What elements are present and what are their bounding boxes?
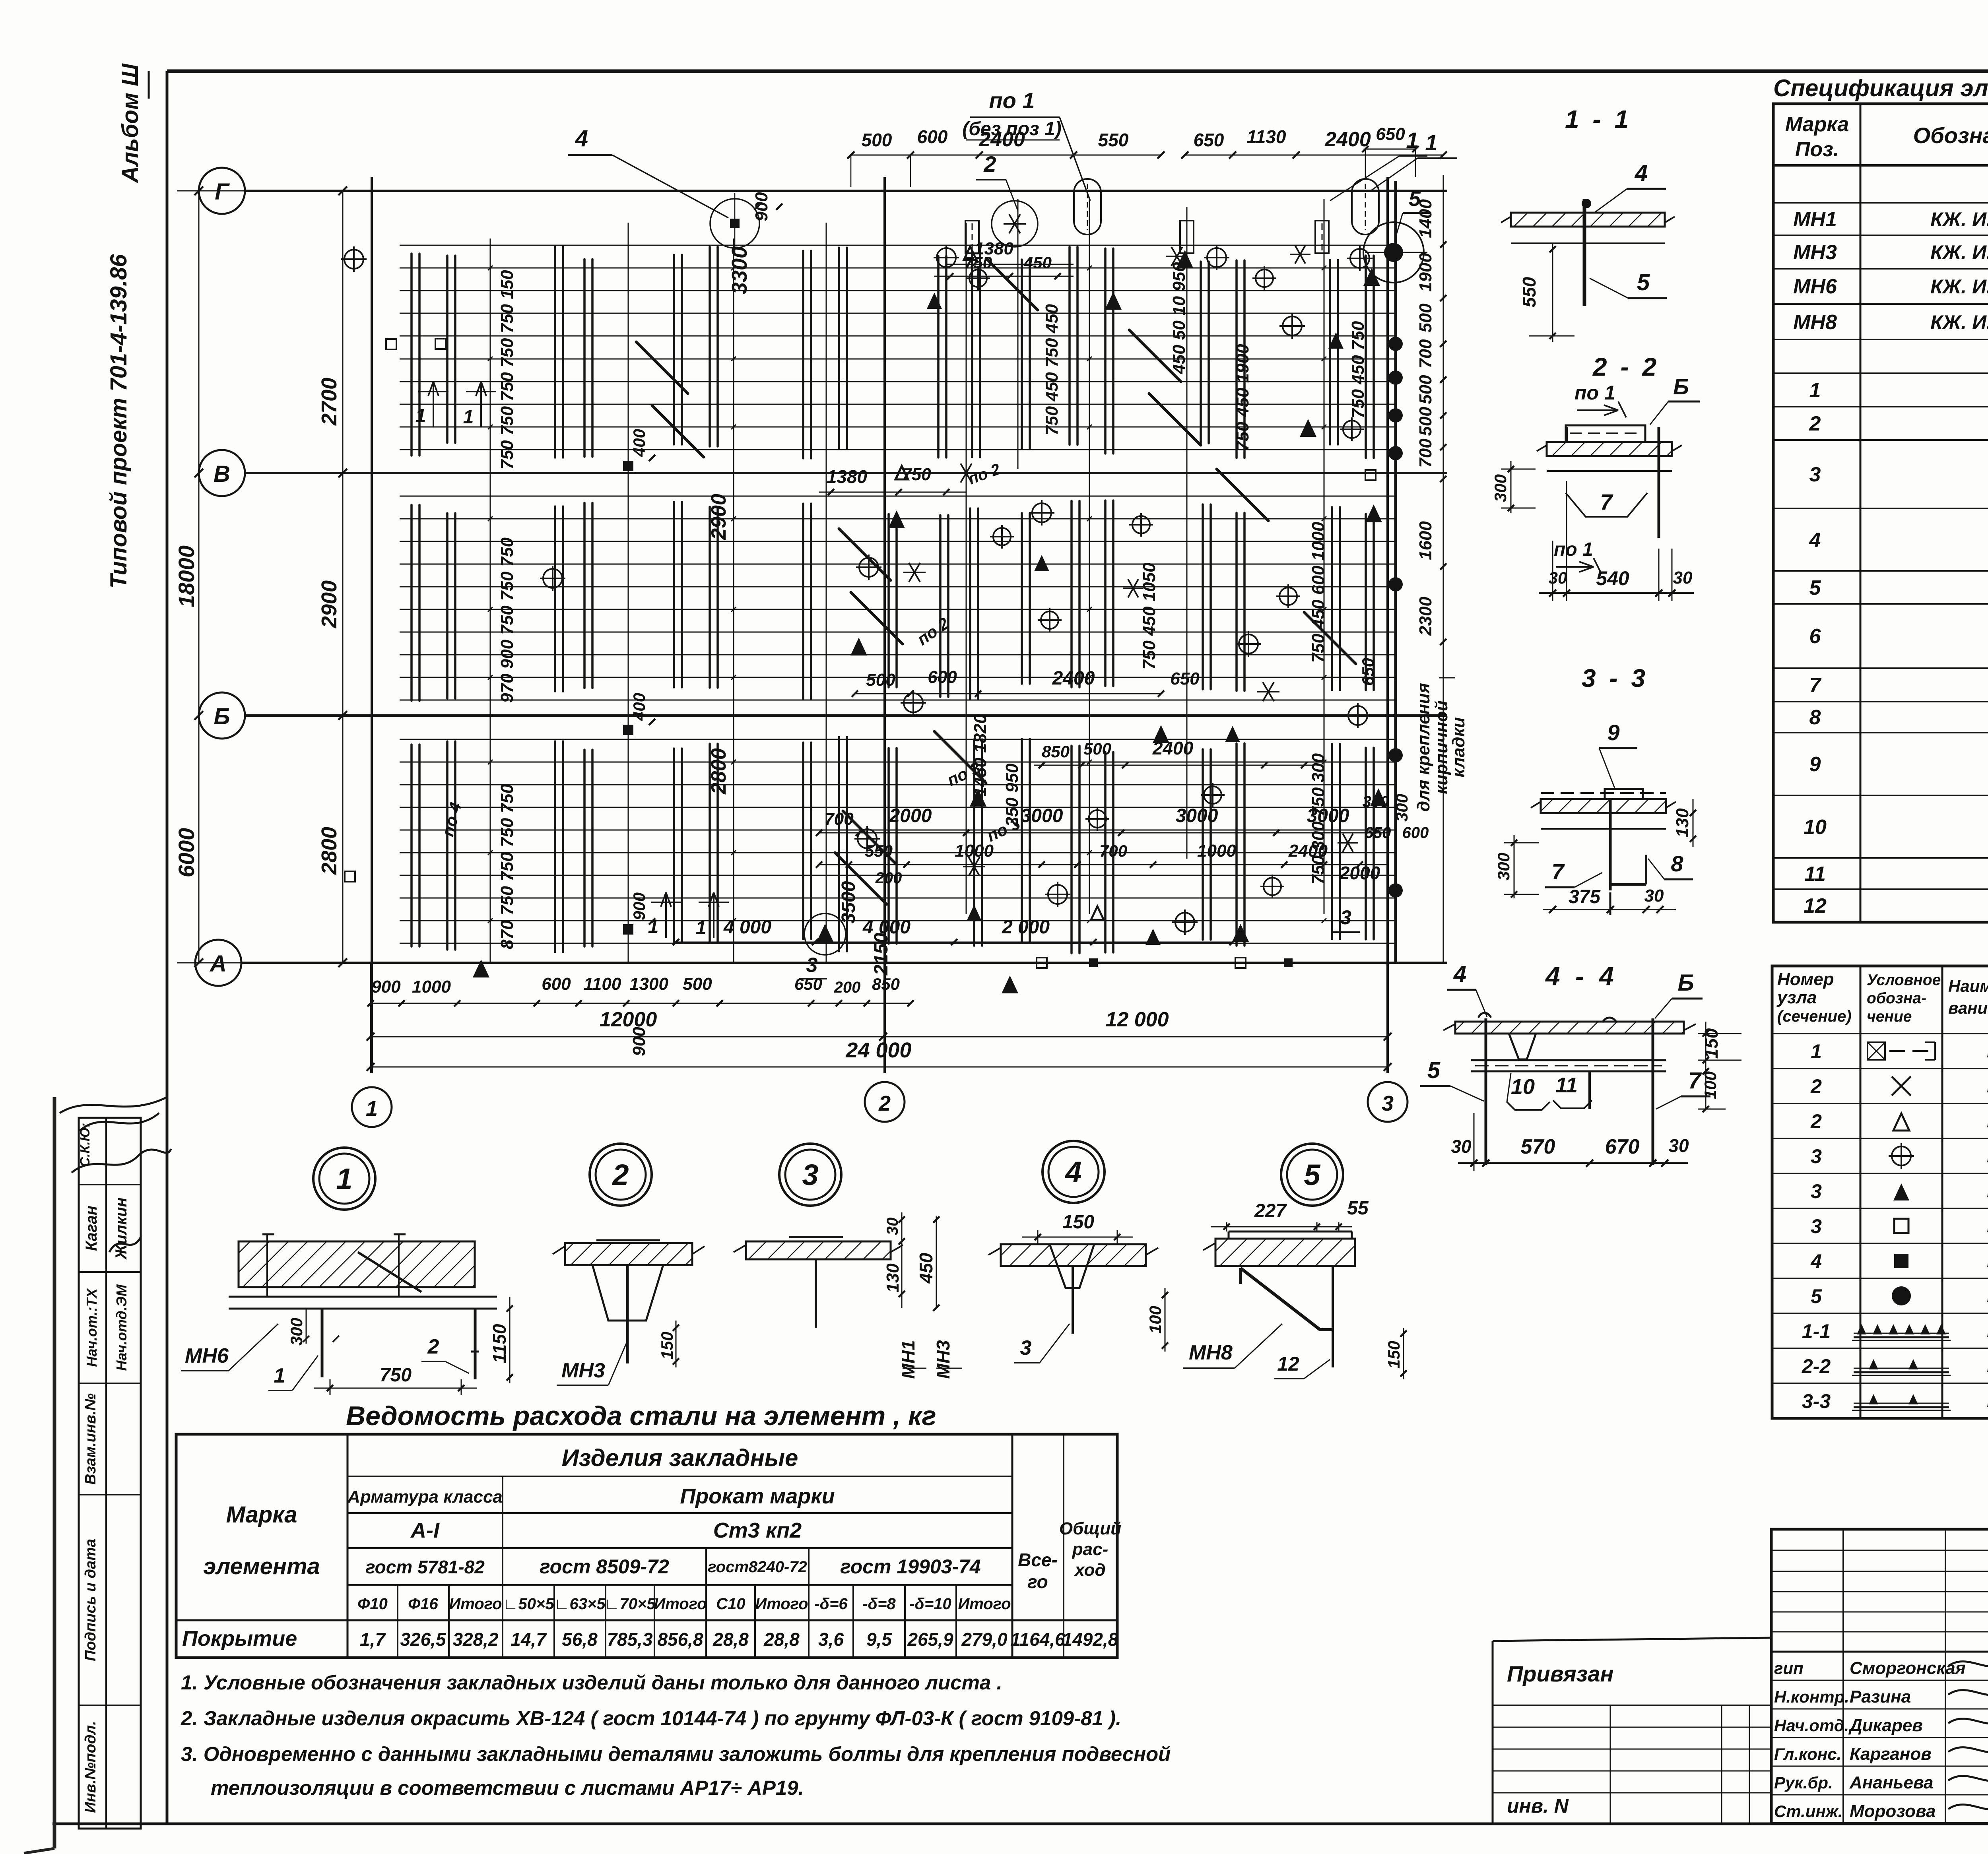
svg-text:Обозначение: Обозначение <box>1913 123 1988 148</box>
svg-text:326,5: 326,5 <box>400 1629 447 1650</box>
svg-text:Взам.инв.№: Взам.инв.№ <box>82 1393 99 1485</box>
svg-text:6: 6 <box>1809 625 1821 648</box>
svg-text:1: 1 <box>1811 1040 1822 1063</box>
section 2-2 dims <box>1552 541 1553 601</box>
svg-text:1: 1 <box>336 1162 352 1195</box>
inner vertical dim 2900/2800 <box>733 239 734 962</box>
svg-text:279,0: 279,0 <box>961 1629 1008 1650</box>
black square markers column <box>623 461 633 471</box>
svg-text:теплоизоляции в соответствии: теплоизоляции в соответствии с листами А… <box>211 1776 804 1799</box>
svg-text:Марка: Марка <box>226 1502 297 1528</box>
svg-text:600: 600 <box>1402 824 1429 842</box>
section 4-4 dims <box>1474 1113 1475 1171</box>
left dimension line 18000/6000 <box>198 191 200 963</box>
axis А <box>195 940 241 986</box>
svg-text:Марка: Марка <box>1785 113 1849 136</box>
svg-text:4: 4 <box>1809 529 1821 552</box>
svg-text:4 000: 4 000 <box>862 917 911 938</box>
svg-text:130: 130 <box>1673 808 1692 838</box>
top dimension chain far right <box>1365 149 1415 150</box>
svg-text:2-2: 2-2 <box>1802 1355 1831 1377</box>
svg-text:570: 570 <box>1521 1135 1555 1158</box>
title block outer <box>1771 1529 1988 1823</box>
svg-text:300: 300 <box>1494 853 1513 880</box>
svg-text:7: 7 <box>1688 1068 1702 1094</box>
svg-text:375: 375 <box>1569 886 1601 908</box>
extra dim chain 1380 750 band1 <box>934 276 1074 277</box>
svg-text:1: 1 <box>696 917 707 939</box>
svg-text:130: 130 <box>883 1263 903 1293</box>
svg-text:3. Одновременно с данными з: 3. Одновременно с данными закладными дет… <box>181 1743 1171 1765</box>
detail 1 drawing MH6 <box>239 1241 475 1287</box>
svg-text:1: 1 <box>1809 379 1821 402</box>
symbols squares <box>386 339 396 349</box>
svg-text:3000: 3000 <box>1307 805 1349 826</box>
svg-text:3: 3 <box>806 954 818 977</box>
svg-text:Ананьева: Ананьева <box>1849 1773 1933 1792</box>
svg-text:Итого: Итого <box>755 1595 808 1613</box>
svg-text:700: 700 <box>1416 339 1435 368</box>
svg-text:1130: 1130 <box>1247 126 1286 147</box>
svg-text:1: 1 <box>366 1097 378 1121</box>
svg-text:Итого: Итого <box>654 1595 707 1613</box>
svg-text:гост 8509-72: гост 8509-72 <box>540 1555 669 1578</box>
svg-text:3: 3 <box>1809 463 1821 486</box>
svg-text:10: 10 <box>1804 816 1827 839</box>
svg-text:6000: 6000 <box>174 828 199 878</box>
svg-text:9: 9 <box>1809 753 1821 776</box>
svg-text:Ст.инж.: Ст.инж. <box>1774 1802 1842 1821</box>
svg-text:1100: 1100 <box>584 974 621 994</box>
svg-text:Изделия закладные: Изделия закладные <box>562 1445 798 1471</box>
svg-text:Ф10: Ф10 <box>357 1595 388 1613</box>
svg-text:1164,6: 1164,6 <box>1010 1629 1065 1650</box>
svg-text:Спецификация элементов к схем: Спецификация элементов к схеме , располо… <box>1773 75 1988 101</box>
chain 700 2000 3000 row <box>819 832 1388 834</box>
svg-text:5: 5 <box>1809 576 1821 599</box>
stamp signatures <box>72 1149 171 1173</box>
bottom dimension 12000 line <box>371 1036 1388 1038</box>
svg-text:Альбом Ш: Альбом Ш <box>117 63 143 184</box>
svg-text:670: 670 <box>1605 1135 1640 1158</box>
svg-text:Типовой проект 701-4-139.86: Типовой проект 701-4-139.86 <box>106 254 132 588</box>
svg-text:550: 550 <box>1519 277 1540 307</box>
svg-text:750 450 750: 750 450 750 <box>1348 321 1368 418</box>
svg-text:Г: Г <box>215 179 230 205</box>
axis Г <box>199 168 245 214</box>
sheet border frame <box>167 70 1988 73</box>
svg-text:600: 600 <box>928 667 957 687</box>
svg-text:3 - 3: 3 - 3 <box>1582 664 1648 692</box>
svg-text:12: 12 <box>1277 1353 1299 1375</box>
roof plate columns <box>410 254 413 456</box>
svg-text:4: 4 <box>575 126 588 151</box>
svg-text:328,2: 328,2 <box>452 1629 499 1650</box>
title block signature rows <box>1771 1680 1988 1681</box>
svg-text:3: 3 <box>802 1158 818 1191</box>
svg-text:Номер: Номер <box>1777 970 1834 989</box>
title block thin rows <box>1771 1550 1988 1551</box>
svg-text:Инв.№подл.: Инв.№подл. <box>82 1721 99 1813</box>
section 3-3 drawing <box>1541 799 1666 813</box>
svg-text:для крепления: для крепления <box>1414 683 1433 812</box>
svg-text:650: 650 <box>1365 824 1391 842</box>
svg-text:30: 30 <box>884 1218 901 1235</box>
svg-text:Нач.от.:ТХ: Нач.от.:ТХ <box>83 1288 100 1367</box>
svg-text:2: 2 <box>612 1158 629 1191</box>
svg-text:Итого: Итого <box>449 1595 502 1613</box>
svg-text:КЖ. И. 0. 51: КЖ. И. 0. 51 <box>1930 275 1988 298</box>
svg-text:100: 100 <box>1146 1306 1165 1334</box>
svg-text:4: 4 <box>1810 1250 1822 1272</box>
svg-text:5: 5 <box>1811 1285 1822 1307</box>
svg-text:1900: 1900 <box>1416 253 1435 292</box>
detail 1 dims <box>306 1309 307 1344</box>
top dimension chain right <box>1185 155 1443 156</box>
svg-text:МН8: МН8 <box>1793 311 1837 334</box>
svg-text:9: 9 <box>1607 720 1619 745</box>
svg-text:Арматура класса: Арматура класса <box>347 1487 503 1507</box>
svg-text:чение: чение <box>1867 1008 1912 1025</box>
svg-text:150: 150 <box>1701 1028 1722 1059</box>
svg-text:1000: 1000 <box>1197 841 1236 861</box>
top dimension chain left <box>851 155 1161 156</box>
svg-text:ход: ход <box>1074 1560 1105 1580</box>
detail 4 dims <box>1037 1230 1039 1244</box>
svg-text:1400: 1400 <box>1416 199 1435 238</box>
detail 5 drawing MH8 <box>1215 1239 1355 1266</box>
svg-text:1: 1 <box>1425 130 1437 155</box>
svg-text:3: 3 <box>1811 1180 1822 1202</box>
bottom dimension chain detail <box>371 1003 911 1004</box>
svg-text:МН3: МН3 <box>933 1340 953 1379</box>
section 2-2 drawing <box>1566 425 1645 442</box>
svg-text:С10: С10 <box>716 1595 745 1613</box>
svg-text:Разина: Разина <box>1850 1687 1911 1707</box>
svg-text:11: 11 <box>1555 1073 1578 1097</box>
svg-text:3: 3 <box>1020 1336 1032 1359</box>
vedomost grid <box>176 1434 1117 1658</box>
svg-text:750 450 750 450: 750 450 750 450 <box>1042 304 1062 435</box>
svg-text:1600: 1600 <box>1416 521 1435 560</box>
svg-text:650: 650 <box>794 975 822 993</box>
svg-text:Б: Б <box>1673 374 1689 399</box>
axis 3 vertical <box>1386 177 1389 1073</box>
svg-text:Каган: Каган <box>83 1206 100 1251</box>
svg-text:Дикарев: Дикарев <box>1848 1716 1923 1735</box>
svg-text:1492,8: 1492,8 <box>1062 1629 1118 1650</box>
detail 3 drawing MH1 <box>746 1241 891 1259</box>
detail 4 drawing <box>1001 1244 1146 1266</box>
svg-text:Ст3 кп2: Ст3 кп2 <box>713 1518 802 1542</box>
title block left columns <box>1842 1529 1844 1823</box>
svg-text:30: 30 <box>1549 568 1567 587</box>
svg-text:12: 12 <box>1804 894 1827 917</box>
svg-text:970 900 750 750 750: 970 900 750 750 750 <box>497 537 517 702</box>
svg-text:2150: 2150 <box>871 933 892 975</box>
svg-text:МН6: МН6 <box>1793 275 1837 298</box>
svg-text:2 - 2: 2 - 2 <box>1592 353 1660 381</box>
svg-text:гост 5781-82: гост 5781-82 <box>365 1557 485 1577</box>
svg-text:кладки: кладки <box>1449 717 1468 778</box>
svg-text:Все-: Все- <box>1018 1550 1058 1570</box>
svg-text:МН8: МН8 <box>1189 1341 1233 1364</box>
svg-text:600: 600 <box>917 126 948 147</box>
svg-text:2800: 2800 <box>707 748 730 795</box>
svg-text:500: 500 <box>1416 407 1435 436</box>
svg-text:обозна-: обозна- <box>1867 990 1926 1007</box>
svg-text:Ведомость расхода стали на: Ведомость расхода стали на элемент , кг <box>346 1401 936 1431</box>
svg-text:18000: 18000 <box>174 545 199 607</box>
section 1-1 drawing <box>1511 213 1665 227</box>
svg-text:30: 30 <box>1644 886 1664 906</box>
left stamp table <box>79 1118 141 1829</box>
svg-text:1,7: 1,7 <box>360 1629 386 1650</box>
section 3-3 dims <box>1543 909 1676 910</box>
svg-text:4: 4 <box>1064 1156 1081 1189</box>
svg-text:3300: 3300 <box>728 246 751 294</box>
svg-text:300: 300 <box>1491 474 1510 502</box>
svg-text:вание: вание <box>1948 999 1988 1017</box>
svg-text:4 - 4: 4 - 4 <box>1545 961 1618 991</box>
svg-text:1 - 1: 1 - 1 <box>1565 105 1632 134</box>
svg-text:550: 550 <box>1098 130 1129 150</box>
svg-text:400: 400 <box>630 429 648 457</box>
bottom dimension chain 4000 4000 2000 <box>676 942 1233 943</box>
svg-text:2900: 2900 <box>707 494 730 540</box>
svg-text:2400: 2400 <box>1324 128 1371 151</box>
detail 5 dims <box>1226 1222 1227 1231</box>
marker arrows 1 1 bottom <box>665 892 667 938</box>
svg-text:900: 900 <box>630 892 648 920</box>
svg-text:1: 1 <box>274 1364 285 1387</box>
svg-text:150: 150 <box>1062 1212 1094 1233</box>
svg-text:500: 500 <box>683 974 712 994</box>
svg-text:2400: 2400 <box>1052 668 1095 689</box>
svg-text:650: 650 <box>1194 130 1224 150</box>
axis Б <box>199 692 245 739</box>
svg-text:7: 7 <box>1600 489 1613 514</box>
section 4-4 drawing <box>1455 1022 1684 1034</box>
svg-text:∟50×5: ∟50×5 <box>503 1595 554 1613</box>
svg-text:30: 30 <box>1668 1135 1689 1156</box>
svg-text:-δ=10: -δ=10 <box>909 1595 951 1613</box>
svg-text:узла: узла <box>1776 988 1817 1007</box>
svg-text:10: 10 <box>1511 1075 1535 1099</box>
svg-text:2700: 2700 <box>317 378 341 426</box>
mid dimension chain 500 600 2400 650 <box>855 693 1161 694</box>
svg-text:150: 150 <box>658 1332 676 1359</box>
svg-text:2800: 2800 <box>317 827 341 875</box>
svg-text:55: 55 <box>1347 1198 1369 1219</box>
svg-text:265,9: 265,9 <box>907 1629 953 1650</box>
svg-text:5: 5 <box>1637 270 1650 295</box>
svg-text:500: 500 <box>862 130 892 150</box>
axis В <box>199 450 245 496</box>
svg-text:1-1: 1-1 <box>1802 1320 1831 1342</box>
privyazan block <box>1493 1638 1771 1641</box>
svg-text:МН3: МН3 <box>561 1359 605 1382</box>
svg-text:кирпичной: кирпичной <box>1432 700 1451 794</box>
svg-text:900: 900 <box>371 977 401 997</box>
svg-text:3500: 3500 <box>838 881 859 923</box>
svg-text:инв. N: инв. N <box>1507 1795 1569 1817</box>
diagonal braces <box>1129 330 1181 382</box>
svg-text:гост8240-72: гост8240-72 <box>708 1558 807 1576</box>
svg-text:1: 1 <box>415 405 426 427</box>
svg-text:(сечение): (сечение) <box>1777 1008 1852 1025</box>
svg-text:5: 5 <box>1427 1057 1441 1083</box>
svg-text:2000: 2000 <box>889 805 932 826</box>
svg-text:150: 150 <box>1384 1341 1403 1369</box>
svg-text:КЖ. И. 0. 52: КЖ. И. 0. 52 <box>1930 311 1988 334</box>
svg-text:3: 3 <box>1811 1215 1822 1237</box>
svg-text:В: В <box>214 461 230 487</box>
symbols stars <box>1004 223 1026 225</box>
svg-text:750 450 600 1000: 750 450 600 1000 <box>1309 522 1328 663</box>
symbols white triangles <box>895 466 908 479</box>
svg-text:750: 750 <box>964 253 992 272</box>
svg-text:200: 200 <box>875 869 902 887</box>
svg-text:500: 500 <box>1416 303 1435 333</box>
svg-text:11: 11 <box>1804 863 1826 886</box>
svg-text:2: 2 <box>427 1335 439 1358</box>
svg-text:9,5: 9,5 <box>866 1629 892 1650</box>
svg-text:4: 4 <box>1635 160 1648 186</box>
svg-text:3: 3 <box>1382 1092 1394 1115</box>
svg-text:элемента: элемента <box>203 1553 320 1579</box>
svg-text:28,8: 28,8 <box>763 1629 800 1650</box>
svg-text:(без поз 1): (без поз 1) <box>962 118 1061 140</box>
svg-text:гип: гип <box>1774 1659 1804 1678</box>
svg-text:900: 900 <box>752 192 771 221</box>
svg-text:2900: 2900 <box>317 580 341 628</box>
svg-text:650: 650 <box>1170 669 1200 688</box>
symbols black triangles <box>1105 292 1122 310</box>
svg-text:750 450 1050: 750 450 1050 <box>1140 562 1159 670</box>
svg-text:4: 4 <box>1453 961 1466 987</box>
detail 2 drawing MH3 <box>565 1243 692 1265</box>
svg-text:Условное: Условное <box>1867 972 1941 989</box>
svg-text:КЖ. И. 0. 50: КЖ. И. 0. 50 <box>1930 241 1988 264</box>
installation table grid <box>1772 966 1988 1418</box>
plan right edge <box>1394 181 1397 963</box>
svg-text:А-Ӏ: А-Ӏ <box>410 1518 440 1542</box>
svg-text:го: го <box>1027 1571 1048 1592</box>
svg-text:400: 400 <box>630 693 648 721</box>
svg-text:5: 5 <box>1304 1158 1321 1191</box>
svg-text:Б: Б <box>1677 970 1694 996</box>
svg-text:1300: 1300 <box>629 974 668 994</box>
svg-text:1000: 1000 <box>955 841 994 861</box>
svg-text:-δ=6: -δ=6 <box>814 1595 848 1613</box>
circled black dot right top <box>1363 222 1424 283</box>
scan edge mark left <box>53 1097 56 1848</box>
extra symbols right half <box>969 270 987 287</box>
svg-text:850: 850 <box>1042 742 1070 761</box>
svg-text:2: 2 <box>983 151 996 176</box>
svg-text:по 1: по 1 <box>1574 382 1615 404</box>
svg-text:Гл.конс.: Гл.конс. <box>1774 1745 1841 1763</box>
svg-text:900: 900 <box>629 1027 649 1056</box>
svg-text:227: 227 <box>1254 1200 1287 1222</box>
svg-text:24 000: 24 000 <box>845 1038 911 1062</box>
svg-text:Наимено-: Наимено- <box>1948 977 1988 995</box>
svg-text:∟70×5: ∟70×5 <box>604 1595 656 1613</box>
svg-text:3000: 3000 <box>1021 805 1063 826</box>
svg-text:7: 7 <box>1809 674 1822 697</box>
svg-text:∟63×5: ∟63×5 <box>554 1595 606 1613</box>
svg-text:4 000: 4 000 <box>723 917 771 938</box>
svg-text:Прокат марки: Прокат марки <box>680 1484 835 1508</box>
svg-text:Б: Б <box>214 704 230 729</box>
svg-text:МН3: МН3 <box>1793 241 1837 264</box>
svg-text:1. Условные обозначения закл: 1. Условные обозначения закладных издели… <box>181 1671 1002 1694</box>
svg-text:Сморгонская: Сморгонская <box>1850 1658 1966 1678</box>
svg-text:856,8: 856,8 <box>657 1629 703 1650</box>
axis 2 vertical <box>883 177 886 1073</box>
svg-text:750 750 750 750 750 150: 750 750 750 750 750 150 <box>497 270 517 469</box>
svg-text:2300: 2300 <box>1416 597 1435 636</box>
svg-text:100: 100 <box>1701 1071 1720 1099</box>
svg-text:450 50 10 950: 450 50 10 950 <box>1169 262 1189 374</box>
svg-text:3-3: 3-3 <box>1802 1390 1831 1412</box>
long pin verticals <box>490 239 491 962</box>
svg-text:8: 8 <box>1809 706 1821 729</box>
svg-text:2. Закладные изделия окрасит: 2. Закладные изделия окрасить ХВ-124 ( г… <box>181 1707 1121 1730</box>
svg-text:450: 450 <box>1023 253 1052 272</box>
svg-text:Морозова: Морозова <box>1850 1802 1936 1821</box>
svg-text:700: 700 <box>1416 438 1435 468</box>
svg-text:3000: 3000 <box>1176 805 1218 826</box>
svg-text:2400: 2400 <box>1288 841 1328 861</box>
svg-text:540: 540 <box>1596 567 1629 590</box>
svg-text:Подпись и дата: Подпись и дата <box>82 1539 99 1661</box>
svg-text:300: 300 <box>1392 794 1411 822</box>
svg-text:3: 3 <box>1340 906 1351 929</box>
svg-text:1150: 1150 <box>489 1324 510 1363</box>
svg-text:30: 30 <box>1673 568 1693 588</box>
svg-text:Итого: Итого <box>958 1595 1011 1613</box>
svg-text:1000: 1000 <box>412 977 451 997</box>
bottom dimension 24000 line <box>371 1067 1388 1068</box>
svg-text:700: 700 <box>1099 842 1127 860</box>
svg-text:КЖ. И. 0. 50: КЖ. И. 0. 50 <box>1930 208 1988 231</box>
svg-text:1: 1 <box>463 407 474 428</box>
svg-text:гост 19903-74: гост 19903-74 <box>840 1555 980 1578</box>
svg-text:Н.контр.: Н.контр. <box>1774 1687 1849 1706</box>
axis 1 vertical <box>371 177 373 1073</box>
svg-text:750: 750 <box>380 1365 412 1386</box>
svg-text:500: 500 <box>1416 375 1435 404</box>
detail circles 1-5 <box>313 1148 375 1210</box>
svg-text:500: 500 <box>1083 739 1111 758</box>
svg-text:2: 2 <box>1810 1075 1822 1098</box>
right edge rotated dims <box>1443 175 1444 963</box>
svg-text:Привязан: Привязан <box>1507 1661 1613 1686</box>
left dimension line 2700 <box>342 191 344 963</box>
svg-text:1450 1820: 1450 1820 <box>971 714 990 797</box>
svg-text:Нач.отд.: Нач.отд. <box>1774 1716 1849 1735</box>
svg-text:785,3: 785,3 <box>607 1629 653 1650</box>
svg-text:рас-: рас- <box>1072 1540 1108 1559</box>
svg-text:8: 8 <box>1671 851 1683 876</box>
svg-text:850: 850 <box>872 975 900 993</box>
top stadium ovals <box>1074 179 1101 235</box>
symbols circles thin <box>992 201 1038 247</box>
svg-text:А: А <box>209 951 227 977</box>
specification table grid <box>1773 104 1988 922</box>
